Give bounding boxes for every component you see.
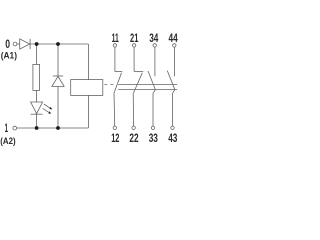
svg-text:11: 11 bbox=[112, 31, 119, 45]
svg-text:12: 12 bbox=[111, 131, 119, 145]
svg-text:43: 43 bbox=[168, 131, 177, 145]
svg-text:(A1): (A1) bbox=[1, 50, 17, 61]
svg-text:(A2): (A2) bbox=[0, 136, 15, 147]
svg-text:21: 21 bbox=[130, 31, 139, 45]
svg-text:34: 34 bbox=[149, 31, 158, 45]
svg-text:1: 1 bbox=[5, 121, 9, 135]
svg-text:22: 22 bbox=[129, 131, 138, 145]
svg-text:33: 33 bbox=[149, 131, 158, 145]
svg-text:0: 0 bbox=[5, 37, 10, 51]
svg-text:44: 44 bbox=[169, 31, 178, 45]
